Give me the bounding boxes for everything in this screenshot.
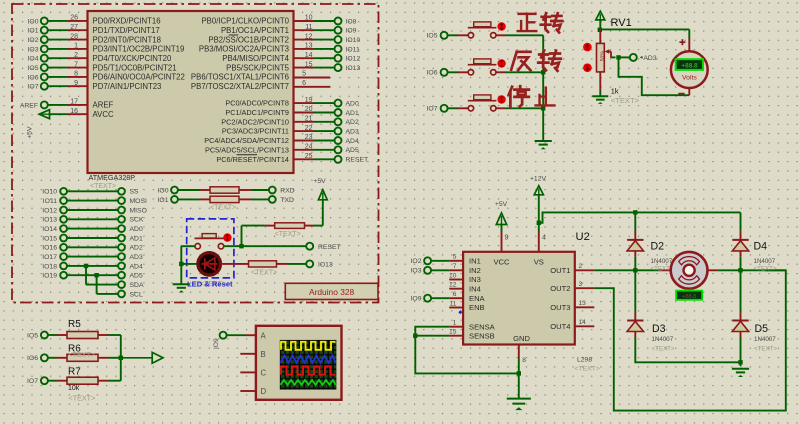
svg-text:PD5/T1/OC0B/PCINT21: PD5/T1/OC0B/PCINT21 — [93, 63, 177, 72]
wiper arrow of RV1 — [605, 49, 616, 58]
svg-text:RESET: RESET — [318, 244, 341, 251]
label 正转 (forward) in red — [518, 13, 563, 32]
svg-text:IO13: IO13 — [42, 217, 57, 224]
svg-text:AD0: AD0 — [346, 101, 359, 108]
svg-text:PD2/INT0/PCINT18: PD2/INT0/PCINT18 — [93, 35, 161, 44]
svg-text:IO7: IO7 — [28, 84, 39, 91]
pin 3 (OUT2) of U2 — [550, 281, 594, 293]
junction D3/D5 anodes — [738, 360, 742, 364]
svg-text:19: 19 — [305, 97, 313, 104]
terminal AD3 of wiper — [619, 54, 657, 62]
svg-text:PC1/ADC1/PCINT9: PC1/ADC1/PCINT9 — [225, 108, 289, 117]
svg-text:PC4/ADC4/SDA/PCINT12: PC4/ADC4/SDA/PCINT12 — [204, 136, 289, 145]
overline over SS of PB2 — [229, 34, 238, 36]
svg-text:<TEXT>: <TEXT> — [754, 265, 777, 272]
red actuate marker of button IO6 — [497, 59, 505, 67]
waveform channel A yellow — [281, 342, 336, 350]
terminal IO2 / pin 28 (PD2) of U1 — [28, 33, 161, 44]
diode D3 1N4007 — [627, 270, 740, 362]
wire SENSB to junction — [415, 335, 449, 337]
svg-text:PC5/ADC5/SCL/PCINT13: PC5/ADC5/SCL/PCINT13 — [205, 145, 289, 154]
svg-text:+12V: +12V — [530, 176, 547, 183]
terminal AD0 / pin 19 (PC0) of U1 — [225, 97, 359, 108]
svg-text:9: 9 — [505, 235, 509, 242]
junction SENSA/SENSB — [413, 334, 417, 338]
svg-text:RXD: RXD — [280, 187, 294, 194]
svg-text:AD3: AD3 — [130, 254, 143, 261]
svg-text:PD1/TXD/PCINT17: PD1/TXD/PCINT17 — [93, 26, 160, 35]
svg-text:IO2: IO2 — [28, 37, 39, 44]
svg-text:IO4: IO4 — [28, 56, 39, 63]
svg-text:PD7/AIN1/PCINT23: PD7/AIN1/PCINT23 — [93, 82, 162, 91]
svg-text:Arduino 328: Arduino 328 — [309, 287, 355, 297]
resistor R5 — [48, 332, 121, 339]
svg-text:IO9: IO9 — [213, 338, 220, 349]
terminal IO10 / pin 12 (PB2) of U1 — [208, 33, 360, 44]
svg-text:10: 10 — [449, 272, 457, 279]
pin 1 (SENSA) of U2 — [449, 320, 495, 332]
svg-text:IO0: IO0 — [158, 187, 169, 194]
svg-text:<TEXT>: <TEXT> — [575, 366, 600, 373]
junction D2 at +12V rail — [633, 210, 637, 214]
svg-text:SCL: SCL — [130, 291, 143, 298]
svg-text:SCK: SCK — [130, 217, 144, 224]
svg-text:IO6: IO6 — [427, 70, 438, 77]
wire IO19 branch to SCL terminal — [94, 273, 143, 298]
wire RV1 top to voltmeter plus — [600, 29, 690, 51]
svg-text:D: D — [261, 387, 267, 396]
svg-text:<TEXT>: <TEXT> — [90, 183, 116, 190]
terminal IO12 wired to MISO — [42, 207, 147, 215]
svg-text:IO0: IO0 — [28, 18, 39, 25]
svg-text:1N4007: 1N4007 — [652, 336, 674, 343]
wire OUT1 to motor left — [594, 269, 671, 271]
svg-text:16: 16 — [70, 108, 78, 115]
terminal IO6 / pin 8 (PD6) of U1 — [28, 71, 185, 82]
LCD display of motor — [676, 291, 702, 300]
svg-text:PB0/ICP1/CLKO/PCINT0: PB0/ICP1/CLKO/PCINT0 — [201, 17, 289, 26]
terminal IO13 of LED net — [306, 260, 333, 268]
svg-text:11: 11 — [450, 300, 457, 307]
red actuate marker of button IO7 — [497, 95, 505, 103]
svg-text:IO1: IO1 — [28, 28, 39, 35]
pin 5 (IN1) of U2 — [449, 254, 481, 266]
svg-text:R5: R5 — [68, 319, 81, 330]
junction motor right at D4/D5 column — [738, 268, 742, 272]
terminal IO0 / pin 26 (PD0) of U1 — [28, 15, 161, 26]
svg-text:MISO: MISO — [130, 207, 147, 214]
wire button right pin to RESET junction — [224, 245, 242, 247]
svg-text:+88.8: +88.8 — [682, 294, 696, 300]
terminal AD2 / pin 21 (PC2) of U1 — [221, 116, 359, 127]
svg-text:PC2/ADC2/PCINT10: PC2/ADC2/PCINT10 — [221, 117, 289, 126]
terminal IO2 to IN1 — [411, 257, 450, 265]
svg-text:PB2/SS/OC1B/PCINT2: PB2/SS/OC1B/PCINT2 — [208, 35, 289, 44]
svg-text:1: 1 — [453, 320, 457, 327]
power arrow at top of RV1 — [596, 11, 605, 30]
terminal IO11 / pin 13 (PB3) of U1 — [199, 43, 360, 54]
terminal IO6 of button — [427, 69, 448, 77]
svg-text:IO12: IO12 — [42, 207, 57, 214]
wire button left pin down to ground — [181, 246, 195, 283]
svg-text:D2: D2 — [651, 240, 665, 252]
svg-text:PB3/MOSI/OC2A/PCINT3: PB3/MOSI/OC2A/PCINT3 — [199, 45, 289, 54]
svg-text:+5V: +5V — [27, 126, 34, 139]
terminal IO17 wired to AD3 — [42, 253, 143, 261]
IC U2 L298 body — [463, 252, 575, 345]
svg-text:6: 6 — [453, 291, 457, 298]
label 停止 (stop) in red — [509, 86, 555, 107]
svg-text:24: 24 — [305, 144, 313, 151]
svg-text:28: 28 — [70, 33, 78, 40]
svg-text:7: 7 — [453, 263, 457, 270]
svg-text:IO17: IO17 — [42, 254, 57, 261]
wire voltmeter bottom lead — [688, 88, 690, 95]
wire OUT2 loop to motor right node — [594, 270, 786, 410]
svg-text:AD2: AD2 — [346, 119, 359, 126]
resistor between IO1 and TXD — [158, 196, 294, 204]
ground of D3/D5 — [732, 368, 749, 370]
resistor LED series to IO13 — [220, 261, 306, 267]
svg-text:1k: 1k — [611, 87, 619, 96]
pin 12 (IN4) of U2 — [449, 282, 481, 294]
svg-text:<TEXT>: <TEXT> — [652, 346, 675, 353]
wire R5/R6/R7 common node — [120, 335, 122, 381]
svg-text:MOSI: MOSI — [130, 198, 147, 205]
svg-text:TXD: TXD — [280, 197, 294, 204]
IC U1 ATMEGA328P body — [88, 11, 294, 173]
svg-text:IO7: IO7 — [27, 378, 38, 385]
output arrow of summing node — [121, 352, 163, 363]
svg-text:15: 15 — [305, 61, 313, 68]
LED D1 — [181, 253, 220, 275]
ground below LED box — [173, 283, 190, 292]
svg-text:A: A — [261, 331, 267, 340]
svg-text:IN4: IN4 — [469, 284, 481, 293]
svg-text:IO12: IO12 — [346, 56, 361, 63]
svg-text:Volts: Volts — [682, 75, 697, 82]
svg-text:25: 25 — [305, 153, 313, 160]
svg-text:AREF: AREF — [93, 101, 114, 110]
svg-text:12: 12 — [449, 282, 457, 289]
svg-text:1: 1 — [74, 43, 78, 50]
terminal IO9 / pin 11 (PB1) of U1 — [221, 24, 357, 35]
svg-text:PC0/ADC0/PCINT8: PC0/ADC0/PCINT8 — [225, 99, 289, 108]
diode D5 1N4007 — [732, 270, 748, 366]
terminal AD1 / pin 20 (PC1) of U1 — [225, 106, 359, 117]
svg-text:AD5: AD5 — [346, 147, 359, 154]
svg-text:<TEXT>: <TEXT> — [69, 352, 95, 359]
svg-text:AD5: AD5 — [130, 273, 143, 280]
wire wiper to voltmeter minus — [619, 57, 690, 95]
terminal AD4 / pin 23 (PC4) of U1 — [204, 134, 359, 145]
terminal AD3 / pin 22 (PC3) of U1 — [222, 125, 359, 136]
label minus of voltmeter — [678, 93, 684, 95]
svg-text:IO6: IO6 — [27, 355, 38, 362]
svg-text:8: 8 — [522, 357, 526, 364]
terminal IO7 of R7 — [27, 377, 48, 385]
svg-text:PC6/RESET/PCINT14: PC6/RESET/PCINT14 — [216, 155, 289, 164]
svg-text:14: 14 — [579, 319, 587, 326]
svg-text:IO5: IO5 — [27, 332, 38, 339]
svg-text:OUT2: OUT2 — [550, 284, 570, 293]
svg-text:AD2: AD2 — [130, 245, 143, 252]
svg-text:8: 8 — [74, 71, 78, 78]
resistor between IO0 and RXD — [158, 187, 295, 195]
svg-text:1N4007: 1N4007 — [651, 258, 673, 265]
svg-text:22: 22 — [305, 125, 313, 132]
terminal IO7 of button — [427, 105, 448, 113]
wire +12V rail to diode columns — [539, 212, 741, 222]
svg-text:IO6: IO6 — [28, 74, 39, 81]
terminal IO11 wired to MOSI — [43, 197, 147, 205]
svg-text:PD6/AIN0/OC0A/PCINT22: PD6/AIN0/OC0A/PCINT22 — [93, 73, 185, 82]
svg-text:OUT3: OUT3 — [550, 303, 570, 312]
power +5V arrow into AVCC pin 16 of U1 — [27, 108, 114, 139]
waveform channel C red — [281, 367, 336, 375]
svg-text:ATMEGA328P: ATMEGA328P — [89, 173, 136, 182]
svg-text:IO13: IO13 — [318, 261, 333, 268]
svg-text:PB1/OC1A/PCINT1: PB1/OC1A/PCINT1 — [221, 26, 289, 35]
oscilloscope body — [256, 326, 342, 400]
junction at LED anode — [179, 262, 183, 266]
pin 15 (SENSB) of U2 — [449, 329, 495, 341]
svg-text:<TEXT>: <TEXT> — [754, 346, 777, 353]
power +5V arrow for RESET pull-up — [313, 178, 327, 226]
wire common button rail down to ground — [542, 35, 544, 140]
svg-text:C: C — [261, 369, 267, 378]
motor M1 — [671, 252, 708, 289]
svg-text:PB7/TOSC2/XTAL2/PCINT7: PB7/TOSC2/XTAL2/PCINT7 — [191, 82, 289, 91]
svg-text:PD3/INT1/OC2B/PCINT19: PD3/INT1/OC2B/PCINT19 — [93, 45, 185, 54]
svg-text:IO7: IO7 — [427, 106, 438, 113]
pin D stub of scope — [240, 390, 256, 392]
push-button IO7 — [468, 95, 497, 111]
push-button IO5 — [468, 22, 497, 38]
svg-text:+5V: +5V — [495, 201, 508, 208]
svg-text:PC3/ADC3/PCINT11: PC3/ADC3/PCINT11 — [222, 127, 289, 136]
svg-text:PB6/TOSC1/XTAL1/PCINT6: PB6/TOSC1/XTAL1/PCINT6 — [191, 73, 289, 82]
svg-text:<TEXT>: <TEXT> — [251, 270, 277, 277]
svg-text:<TEXT>: <TEXT> — [69, 394, 96, 403]
svg-text:VS: VS — [534, 258, 544, 267]
svg-text:IN1: IN1 — [469, 256, 481, 265]
svg-text:1N4007: 1N4007 — [754, 336, 776, 343]
svg-text:AD0: AD0 — [130, 226, 143, 233]
terminal AD5 / pin 24 (PC5) of U1 — [205, 144, 359, 155]
svg-text:AD1: AD1 — [130, 235, 143, 242]
svg-text:17: 17 — [70, 99, 78, 106]
LCD display of voltmeter — [676, 59, 703, 70]
svg-text:IO3: IO3 — [411, 268, 422, 275]
svg-text:SDA: SDA — [130, 282, 144, 289]
svg-text:LED & Reset: LED & Reset — [187, 279, 233, 288]
svg-text:<TEXT>: <TEXT> — [611, 96, 640, 105]
scope screen — [280, 340, 337, 390]
svg-text:IO9: IO9 — [411, 296, 422, 303]
terminal IO10 wired to SS — [42, 188, 139, 196]
blue dashed box LED & Reset — [187, 219, 234, 278]
pin 13 (OUT3) of U2 — [550, 300, 594, 312]
svg-text:ENA: ENA — [469, 294, 486, 303]
svg-text:AD4: AD4 — [346, 138, 359, 145]
svg-text:IO9: IO9 — [346, 28, 357, 35]
svg-text:RESET: RESET — [346, 157, 369, 164]
svg-text:3: 3 — [579, 281, 583, 288]
junction R6 node — [119, 356, 123, 360]
svg-text:VCC: VCC — [493, 258, 510, 267]
svg-text:D4: D4 — [754, 240, 768, 252]
wire button IO6 to common rail — [496, 71, 543, 73]
power +5V arrow to VCC of U2 — [495, 201, 509, 252]
svg-text:5: 5 — [302, 71, 306, 78]
svg-text:PD4/T0/XCK/PCINT20: PD4/T0/XCK/PCINT20 — [93, 54, 173, 63]
resistor R6 — [48, 354, 121, 361]
red actuate marker of button IO5 — [497, 22, 505, 30]
svg-text:10k: 10k — [68, 385, 80, 392]
svg-text:23: 23 — [305, 134, 313, 141]
svg-text:GND: GND — [513, 334, 530, 343]
wire motor right to D4 column — [708, 269, 786, 271]
svg-text:2: 2 — [579, 263, 583, 270]
svg-text:D3: D3 — [652, 323, 666, 335]
svg-text:IO15: IO15 — [42, 235, 57, 242]
svg-text:2: 2 — [74, 52, 78, 59]
pin 6 (ENA) of U2 — [449, 291, 485, 303]
svg-text:IO18: IO18 — [42, 263, 57, 270]
pin 11 (ENB) of U2 — [449, 300, 484, 312]
junction rail row3 — [541, 106, 545, 110]
wire RESET net to terminal — [239, 226, 340, 251]
wire IO18 branch to SDA terminal — [84, 264, 144, 289]
svg-text:IO10: IO10 — [346, 37, 361, 44]
label plus of voltmeter — [679, 39, 685, 45]
svg-text:ENB: ENB — [469, 303, 485, 312]
potentiometer RV1 body — [597, 30, 606, 96]
svg-text:<TEXT>: <TEXT> — [275, 231, 301, 238]
waveform channel D green — [281, 380, 336, 385]
label 反转 (reverse) in red — [511, 51, 561, 71]
svg-text:13: 13 — [579, 300, 587, 307]
svg-text:L298: L298 — [577, 357, 592, 364]
svg-text:AD1: AD1 — [346, 110, 359, 117]
wire IO6 to button — [448, 71, 468, 73]
svg-text:10: 10 — [305, 15, 313, 22]
svg-text:12: 12 — [305, 33, 313, 40]
svg-text:SENSB: SENSB — [469, 331, 495, 340]
ground of RV1 — [592, 95, 608, 97]
svg-text:OUT1: OUT1 — [550, 266, 570, 275]
pin 14 (OUT4) of U2 — [550, 319, 594, 331]
junction VS branch — [537, 221, 541, 225]
overline over RESET of PC6 — [237, 154, 258, 156]
svg-text:IO1: IO1 — [158, 197, 169, 204]
red actuate marker of reset button — [223, 233, 231, 241]
svg-text:PB5/SCK/PCINT5: PB5/SCK/PCINT5 — [226, 63, 289, 72]
resistor R7 — [48, 377, 121, 384]
junction OUT1 at D2/D3 column — [633, 268, 637, 272]
svg-text:PD0/RXD/PCINT16: PD0/RXD/PCINT16 — [93, 17, 161, 26]
svg-text:AD3: AD3 — [346, 129, 359, 136]
terminal IO13 wired to SCK — [42, 216, 144, 224]
power +12V arrow to VS of U2 — [530, 176, 547, 252]
junction on GND line — [517, 371, 521, 375]
svg-text:AREF: AREF — [20, 102, 38, 109]
wire IO5 to button — [448, 34, 468, 36]
svg-text:IO5: IO5 — [427, 33, 438, 40]
terminal IO13 / pin 15 (PB5) of U1 — [226, 61, 360, 72]
svg-text:IO3: IO3 — [28, 46, 39, 53]
diode D2 1N4007 — [627, 212, 643, 270]
terminal IO3 to IN2 — [411, 267, 450, 275]
svg-text:15: 15 — [449, 329, 457, 336]
terminal IO19 wired to AD5 — [42, 272, 143, 280]
svg-text:IN3: IN3 — [469, 275, 481, 284]
svg-text:R7: R7 — [68, 366, 81, 377]
svg-text:+5V: +5V — [313, 178, 326, 185]
terminal AREF / pin 17 of U1 — [20, 99, 114, 110]
svg-text:13: 13 — [305, 43, 313, 50]
svg-text:IO11: IO11 — [346, 46, 360, 53]
pin 5 XTAL1 stub of U1 — [191, 71, 330, 82]
svg-text:27: 27 — [70, 24, 78, 31]
svg-text:14: 14 — [305, 52, 313, 59]
svg-text:SS: SS — [130, 189, 140, 196]
svg-text:+88.8: +88.8 — [681, 63, 698, 70]
wire sense net to ground net — [415, 336, 519, 374]
wire IO7 to button — [448, 107, 468, 109]
terminal IO9 to scope channel A — [213, 332, 256, 349]
terminal RESET / pin 25 (PC6) of U1 — [216, 153, 368, 164]
svg-text:PB4/MISO/PCINT4: PB4/MISO/PCINT4 — [222, 54, 289, 63]
svg-text:SENSA: SENSA — [469, 322, 496, 331]
terminal IO3 / pin 1 (PD3) of U1 — [28, 43, 185, 54]
svg-text:U2: U2 — [576, 231, 590, 243]
svg-text:AD3: AD3 — [643, 55, 656, 62]
pin 8 GND of U2 — [519, 345, 527, 399]
svg-text:50%: 50% — [600, 51, 606, 62]
junction RV1 wiper — [616, 55, 620, 59]
terminal IO18 wired to AD4 — [42, 263, 143, 271]
pin B stub of scope — [240, 353, 256, 355]
svg-text:7: 7 — [74, 61, 78, 68]
svg-text:IO13: IO13 — [346, 65, 361, 72]
waveform channel B blue — [281, 356, 336, 363]
voltmeter body — [671, 51, 708, 88]
terminal IO14 wired to AD0 — [42, 225, 143, 233]
terminal IO4 / pin 2 (PD4) of U1 — [28, 52, 172, 63]
svg-text:B: B — [261, 350, 266, 359]
push-button IO6 — [468, 59, 497, 75]
junction rail row2 — [541, 70, 545, 74]
terminal IO7 / pin 9 (PD7) of U1 — [28, 80, 162, 91]
diode D4 1N4007 — [732, 212, 748, 270]
push-button reset inside box — [195, 234, 225, 249]
junction RV1 top — [598, 28, 602, 32]
svg-text:IO10: IO10 — [42, 189, 57, 196]
pin 2 (OUT1) of U2 — [550, 263, 594, 275]
terminal IO5 / pin 7 (PD5) of U1 — [28, 61, 177, 72]
svg-text:RV1: RV1 — [611, 17, 632, 29]
resistor RESET pull-up — [242, 223, 323, 229]
svg-text:6: 6 — [302, 80, 306, 87]
svg-text:IO2: IO2 — [411, 258, 422, 265]
svg-text:IO11: IO11 — [43, 198, 57, 205]
svg-text:4: 4 — [542, 235, 546, 242]
svg-text:1N4007: 1N4007 — [754, 258, 776, 265]
ground of U2 pin 8 — [507, 398, 531, 400]
svg-text:IO8: IO8 — [346, 18, 357, 25]
